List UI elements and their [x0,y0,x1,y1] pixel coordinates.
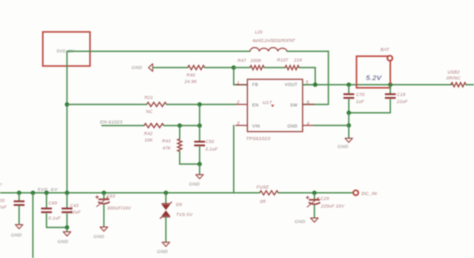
wire vertical L-SW [327,51,329,104]
wire R107 to VOUT tap [299,67,315,69]
svg-text:R21: R21 [145,95,154,100]
svg-text:GND: GND [295,219,306,224]
svg-text:SW: SW [290,102,298,107]
svg-text:C63: C63 [107,193,116,198]
capacitor C70 1uF [348,85,350,94]
pin stubs [236,84,248,86]
capacitor C19 22uF [389,85,391,94]
node BAT/C19 tap [388,83,392,87]
wire input 5V0_6V row to inductor [67,50,250,52]
net highlight box 5V0_6V [43,32,90,66]
svg-text:L20: L20 [255,29,263,34]
net highlight box 5.2V [357,56,391,88]
wire EN-61023 to R42 [102,125,144,127]
svg-text:D9: D9 [176,202,182,207]
svg-text:22uF: 22uF [396,99,408,104]
ground C63 [100,227,108,231]
svg-text:C20: C20 [0,198,5,203]
wire gnd to R40 [153,67,188,69]
svg-text:U17: U17 [263,100,273,106]
svg-text:C19: C19 [397,92,406,97]
wire input bus [0,192,260,194]
wire C69/C43 join [47,226,68,228]
svg-text:3: 3 [237,121,240,126]
node VOUT/divider [313,83,317,87]
svg-text:USB2: USB2 [448,70,461,75]
svg-text:GND: GND [11,232,22,237]
svg-text:GND: GND [287,123,297,128]
svg-text:NC: NC [146,109,153,114]
svg-text:1: 1 [237,80,240,85]
node FB junction [232,65,236,69]
svg-text:GND: GND [338,144,349,149]
svg-text:R40: R40 [187,73,196,78]
svg-text:22uF: 22uF [69,209,81,214]
wire RC bottoms join [180,163,200,165]
pin BAT [387,56,392,61]
svg-text:R43: R43 [162,139,171,144]
ground D9 [162,242,170,246]
capacitor C50 0.1uF [194,141,205,143]
wire vertical to bottom edge [31,191,35,195]
svg-text:R42: R42 [144,131,153,136]
svg-text:300UF/16V: 300UF/16V [107,205,132,210]
svg-text:FUSE: FUSE [257,184,270,189]
svg-text:0R/NC: 0R/NC [447,76,462,81]
capacitor C29 220uF/16V [312,191,316,195]
svg-text:R47: R47 [238,58,247,63]
wire VIN stub down to bus [233,125,235,192]
wire inductor to SW corner [287,50,328,52]
svg-text:10K: 10K [145,138,154,143]
ground C69/C43 [63,232,71,236]
ground (output) [345,138,353,142]
capacitor C63 300uF/16V [102,191,106,195]
node EN junction [197,102,201,106]
svg-text:C43: C43 [70,203,79,208]
wire rail to R21 [67,103,147,105]
wire down to ground [348,125,350,138]
svg-text:GND: GND [132,65,143,70]
svg-text:C70: C70 [356,92,365,97]
resistor R42 10K [144,124,164,128]
op-amp/IC U17 TPS61023 body [247,79,302,131]
svg-text:GND: GND [157,249,168,254]
svg-text:uF: uF [0,183,2,188]
wire R21 to EN pin [167,103,236,105]
capacitor C20 22uF [17,191,21,195]
svg-text:0R: 0R [260,199,267,204]
svg-text:4: 4 [307,121,310,126]
wire to right edge [466,84,474,86]
svg-text:200K: 200K [250,58,263,63]
svg-text:0.1uF: 0.1uF [206,147,218,152]
node C70 tap [347,83,351,87]
svg-text:DC_IN: DC_IN [362,191,378,197]
svg-text:C29: C29 [321,196,330,201]
svg-text:R107: R107 [277,58,289,63]
ground (EN RC) [196,175,204,179]
resistor R47 200K [250,66,264,70]
svg-text:TVS-5V: TVS-5V [176,212,193,217]
resistor FUSE 0R [260,191,279,195]
svg-text:6: 6 [307,100,310,105]
resistor R21 NC [147,102,167,106]
svg-text:5: 5 [306,80,309,85]
ground C29 [311,218,319,222]
ground C20 [15,225,23,229]
svg-text:21K: 21K [293,58,303,63]
wire join down to pin4 row [348,113,350,126]
inductor L20 [250,48,287,52]
svg-text:BAT: BAT [381,47,390,52]
wire node to R47 [234,67,250,69]
capacitor C43 22uF [65,191,69,195]
wire R42 to nodes [164,125,200,127]
svg-text:FB: FB [252,82,258,87]
wire SW stub row [303,103,329,105]
pin DC_IN [353,190,358,195]
svg-text:0.1uF: 0.1uF [49,216,61,221]
svg-text:GND: GND [94,234,105,239]
wire EN vertical [199,104,201,140]
resistor R43 47K [179,126,181,139]
svg-text:GND: GND [189,182,200,187]
svg-text:22uF: 22uF [0,204,7,209]
svg-text:5.2V: 5.2V [366,75,383,82]
svg-text:TPS61023: TPS61023 [246,136,270,142]
resistor USB2 0R/NC [451,83,466,87]
wire cap bottoms join [349,112,391,114]
svg-text:EN: EN [252,102,258,107]
node rail/R21 [65,102,69,106]
svg-text:EN-61023: EN-61023 [100,119,123,125]
wire FB node down to pin 1 [233,68,235,85]
svg-text:4uH/2.2A/SD31ROFNT: 4uH/2.2A/SD31ROFNT [253,38,296,43]
wire left vertical rail from box to bus [66,51,68,193]
resistor R40 24.9K [188,66,205,70]
wire VOUT row [303,84,452,86]
svg-text:2: 2 [236,100,240,105]
wire GND pin4 row [314,124,349,126]
svg-text:VIN: VIN [252,123,260,128]
wire R47 to R107 [264,67,285,69]
svg-text:220uF 16V: 220uF 16V [320,203,345,208]
svg-text:C50: C50 [206,139,215,144]
capacitor C69 0.1uF [44,191,48,195]
svg-text:47K: 47K [163,145,172,150]
svg-text:24.9K: 24.9K [184,79,198,84]
svg-text:C69: C69 [49,201,58,206]
wire R40 to node [205,67,234,69]
svg-text:VOUT: VOUT [285,82,298,87]
diode D9 TVS [164,191,168,195]
resistor R107 21K [285,66,299,70]
svg-text:1uF: 1uF [356,99,364,104]
svg-text:GND: GND [58,239,69,244]
